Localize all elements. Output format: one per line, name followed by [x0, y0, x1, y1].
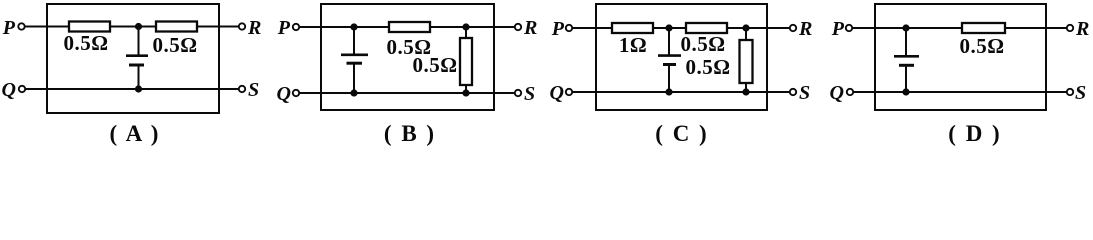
capacitor C1 (A) bottom plate — [129, 64, 144, 67]
junction node top (A) — [135, 23, 142, 30]
capacitor C1 (D) top lead — [905, 28, 907, 56]
wire junction to R terminal (C) — [746, 27, 790, 29]
wire Q to S (C) — [572, 91, 790, 93]
wire P to R1 (C) — [572, 27, 612, 29]
junction node bottom (D) — [902, 88, 909, 95]
capacitor C1 (C) bottom plate — [663, 63, 676, 66]
junction node bottom-left (C) — [665, 88, 672, 95]
node P terminal circle (C) — [566, 25, 572, 31]
box (two-port network C) — [596, 4, 767, 110]
svg-text:0.5Ω: 0.5Ω — [685, 55, 730, 79]
box (two-port network D) — [875, 4, 1046, 110]
node P terminal circle — [18, 23, 24, 29]
wire R2 to junction (C) — [727, 27, 746, 29]
resistor R1 0.5ohm horizontal (B) — [389, 22, 430, 32]
junction node top-right (B) — [462, 23, 469, 30]
resistor R3 vertical (C) bottom lead — [745, 83, 747, 92]
junction node bottom-right (C) — [742, 88, 749, 95]
svg-text:R: R — [523, 17, 537, 39]
capacitor C1 (C) top plate — [658, 54, 681, 57]
node Q terminal circle (D) — [847, 89, 853, 95]
node S terminal circle (B) — [515, 90, 521, 96]
svg-text:S: S — [1075, 82, 1086, 104]
node R terminal circle (B) — [515, 24, 521, 30]
svg-text:R: R — [798, 18, 812, 40]
svg-text:Q: Q — [830, 82, 844, 104]
resistor R3 0.5ohm vertical (C) — [740, 40, 753, 83]
wire P to resistor (D) — [852, 27, 962, 29]
resistor R1 1ohm (C) — [612, 23, 653, 33]
wire junction to R terminal (B) — [466, 26, 515, 28]
svg-text:0.5Ω: 0.5Ω — [63, 31, 108, 55]
resistor R2 vertical (B) bottom lead — [465, 85, 467, 93]
node P terminal circle (D) — [846, 25, 852, 31]
svg-text:R: R — [247, 17, 261, 39]
node S terminal circle — [239, 86, 245, 92]
capacitor C1 (D) bottom plate — [899, 64, 914, 67]
svg-text:( D ): ( D ) — [948, 121, 1001, 146]
svg-text:Q: Q — [277, 83, 291, 105]
svg-text:( C ): ( C ) — [655, 121, 708, 146]
svg-text:0.5Ω: 0.5Ω — [152, 33, 197, 57]
capacitor C1 (B) bottom plate — [347, 62, 363, 65]
capacitor C1 (C) bottom lead — [668, 65, 670, 93]
capacitor C1 (B) top plate — [341, 53, 368, 56]
svg-text:( B ): ( B ) — [384, 121, 436, 146]
node Q terminal circle (B) — [293, 90, 299, 96]
wire P to resistor R1 — [25, 26, 69, 28]
resistor R2 0.5ohm horizontal (C) — [686, 23, 727, 33]
junction node bottom-left (B) — [350, 89, 357, 96]
node S terminal circle (C) — [790, 89, 796, 95]
resistor R1 0.5ohm (D) — [962, 23, 1005, 33]
node S terminal circle (D) — [1067, 89, 1073, 95]
node R terminal circle (D) — [1067, 25, 1073, 31]
capacitor C1 (C) top lead — [668, 28, 670, 55]
capacitor C1 (A) top lead — [138, 27, 140, 56]
svg-text:Q: Q — [2, 79, 16, 101]
svg-text:P: P — [831, 18, 845, 40]
junction node bottom-right (B) — [462, 89, 469, 96]
capacitor C1 (D) bottom lead — [905, 65, 907, 92]
capacitor C1 (A) top plate — [126, 54, 148, 57]
svg-text:0.5Ω: 0.5Ω — [959, 34, 1004, 58]
svg-text:S: S — [524, 83, 535, 105]
wire R1 to R2 (C) — [653, 27, 686, 29]
junction node top-left (C) — [665, 24, 672, 31]
svg-text:S: S — [248, 79, 259, 101]
wire R1 to junction (B) — [430, 26, 466, 28]
svg-text:0.5Ω: 0.5Ω — [680, 32, 725, 56]
resistor R2 0.5ohm (A) — [156, 22, 197, 32]
junction node top (D) — [902, 24, 909, 31]
wire Q to S (B) — [299, 92, 515, 94]
junction node bottom (A) — [135, 85, 142, 92]
svg-text:Q: Q — [550, 82, 564, 104]
junction node top-left (B) — [350, 23, 357, 30]
svg-text:P: P — [277, 17, 291, 39]
resistor R3 0.5ohm vertical (C) top lead — [745, 28, 747, 40]
wire R1 to R2 — [110, 26, 156, 28]
svg-text:( A ): ( A ) — [110, 121, 161, 146]
node R terminal circle (C) — [790, 25, 796, 31]
svg-text:R: R — [1075, 18, 1089, 40]
wire R2 to R terminal — [197, 26, 239, 28]
resistor R1 0.5ohm (A) — [69, 22, 110, 32]
wire resistor to R terminal (D) — [1005, 27, 1067, 29]
node P terminal circle (B) — [293, 24, 299, 30]
capacitor C1 (A) bottom lead — [138, 65, 140, 89]
box (two-port network A) — [47, 4, 219, 113]
svg-text:P: P — [551, 18, 565, 40]
node Q terminal circle (C) — [566, 89, 572, 95]
node Q terminal circle — [19, 86, 25, 92]
box (two-port network B) — [321, 4, 494, 110]
svg-text:P: P — [2, 17, 16, 39]
wire P to R1 (B) — [299, 26, 389, 28]
capacitor C1 (D) top plate — [894, 55, 919, 58]
resistor R2 0.5ohm vertical (B) — [460, 38, 472, 85]
junction node top-right (C) — [742, 24, 749, 31]
svg-text:0.5Ω: 0.5Ω — [412, 53, 457, 77]
wire Q to S (D) — [853, 91, 1067, 93]
svg-text:S: S — [799, 82, 810, 104]
svg-text:1Ω: 1Ω — [619, 33, 647, 57]
wire Q to S — [25, 88, 239, 90]
capacitor C1 (B) bottom lead — [353, 63, 355, 93]
node R terminal circle — [239, 23, 245, 29]
resistor R2 0.5ohm vertical (B) top lead — [465, 27, 467, 38]
capacitor C1 (B) top lead — [353, 27, 355, 54]
